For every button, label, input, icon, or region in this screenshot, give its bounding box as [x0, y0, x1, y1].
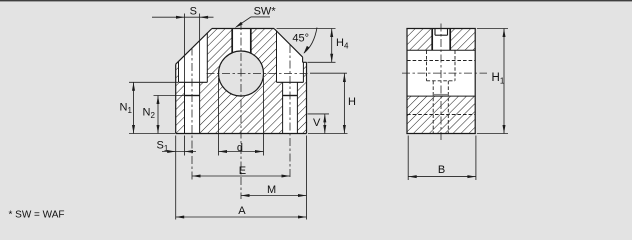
dimension E	[192, 175, 290, 177]
dimension S1	[162, 136, 196, 220]
counterbore left step	[179, 81, 208, 83]
svg-text:* SW = WAF: * SW = WAF	[9, 210, 65, 221]
body outline: bottom edge	[176, 133, 307, 135]
svg-text:d: d	[237, 142, 243, 154]
right chamfer 45deg	[274, 29, 303, 58]
thread end line left hole	[185, 95, 200, 97]
dimension H1	[477, 29, 508, 134]
left chamfer 45deg	[176, 29, 212, 65]
left edge	[175, 64, 177, 133]
svg-text:S: S	[190, 6, 197, 18]
dimension A	[176, 136, 307, 220]
socket void white	[432, 28, 450, 51]
hex socket inner lines	[435, 29, 448, 36]
through hole left walls	[184, 82, 186, 133]
svg-text:A: A	[238, 205, 246, 217]
svg-text:E: E	[239, 165, 246, 177]
dimension S	[152, 14, 214, 83]
side body fill	[407, 29, 475, 134]
side hatch top band	[407, 29, 475, 51]
thread end line right hole	[283, 95, 298, 97]
bore bottom line	[407, 95, 475, 97]
svg-text:H: H	[348, 96, 356, 108]
dimension d	[219, 78, 264, 156]
centerline bore horizontal	[207, 73, 311, 75]
dimension H4	[277, 29, 336, 63]
dimension V	[308, 114, 330, 134]
counterbore right outer walls	[276, 31, 278, 82]
centerline right hole	[289, 45, 291, 180]
svg-text:SW*: SW*	[254, 6, 277, 18]
through hole right (void, white)	[283, 82, 298, 133]
body section fill white	[176, 29, 307, 134]
counterbore right step	[277, 81, 304, 83]
side centerline vertical	[440, 24, 442, 141]
bore (large circle, void)	[219, 51, 264, 96]
counterbore left outer walls	[178, 62, 180, 83]
dimension N1	[129, 82, 178, 133]
through hole right walls	[282, 82, 284, 133]
side centerline horizontal	[402, 72, 487, 74]
top border line	[0, 0, 632, 1]
bore top line	[407, 49, 475, 51]
right stub below chamfer	[302, 57, 304, 62]
svg-text:V: V	[313, 117, 321, 129]
dimension M	[241, 195, 307, 197]
centerline left hole	[191, 48, 193, 180]
centerline bore vertical	[240, 22, 242, 199]
dimension B	[408, 136, 476, 181]
top edge	[212, 28, 274, 30]
dimension H	[308, 74, 348, 134]
through hole left (void, white)	[185, 82, 200, 133]
hidden line V step	[407, 114, 475, 116]
svg-text:M: M	[267, 184, 276, 196]
side outline	[406, 29, 475, 134]
dimension N2	[154, 96, 185, 134]
clamp screw hole thick walls (thread)	[231, 29, 233, 53]
right step	[303, 61, 307, 63]
right edge	[306, 62, 308, 133]
hidden line chamfer edge	[407, 60, 475, 62]
counterbore left (void, white)	[179, 33, 208, 83]
counterbore right (void, white)	[277, 31, 304, 82]
thread end hidden (gray)	[433, 94, 448, 96]
clamp screw hole (void, white)	[232, 28, 251, 54]
side hatch bottom band	[407, 96, 475, 133]
svg-text:45°: 45°	[292, 33, 309, 45]
svg-text:B: B	[438, 164, 445, 176]
socket thread walls thick	[431, 29, 433, 51]
hatching of body section	[176, 29, 307, 134]
hidden counterbore	[427, 50, 456, 133]
